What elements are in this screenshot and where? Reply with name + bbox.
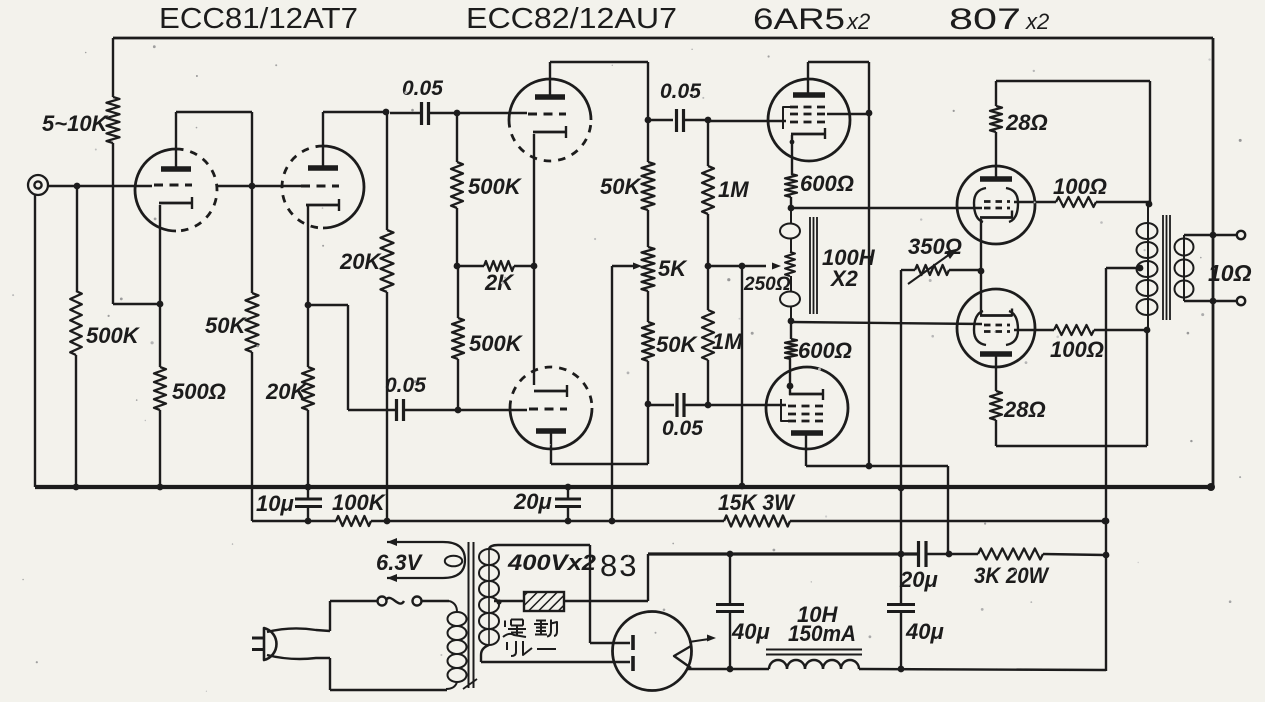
wire B+ riser — [1105, 268, 1107, 671]
node V2b grid — [455, 407, 462, 414]
wire 350ohm to ground — [900, 270, 902, 488]
tube V2b ECC82 triode inverted — [510, 408, 592, 449]
wire V6 screen — [1014, 329, 1054, 331]
svg-text:0.05: 0.05 — [402, 77, 443, 100]
wire V1a plate jog — [175, 112, 177, 169]
svg-text:500K: 500K — [86, 323, 141, 348]
capacitor 20u decoupling — [567, 487, 569, 498]
svg-text:0.05: 0.05 — [385, 374, 426, 397]
terminal output top — [1237, 231, 1245, 239]
node B+ line right — [1102, 518, 1109, 525]
wire to 807 upper grid — [791, 207, 982, 209]
svg-text:400Vx2: 400Vx2 — [507, 550, 597, 575]
resistor 500K grid leak — [76, 186, 78, 291]
tube V5 807 upper — [957, 166, 1035, 244]
svg-text:X2: X2 — [829, 266, 859, 291]
wire upper 6AR5 grid — [708, 120, 786, 122]
svg-text:100K: 100K — [332, 490, 387, 515]
node driver lower — [788, 318, 795, 325]
wire plate bus down — [868, 113, 870, 466]
AC plug — [252, 637, 264, 640]
fuse — [330, 600, 377, 602]
svg-text:40μ: 40μ — [905, 619, 944, 644]
wire 5K wiper — [612, 265, 633, 267]
wire jack shield to ground — [34, 195, 36, 487]
wire center to ground — [741, 266, 743, 486]
tube V6 807 lower inverted — [957, 289, 1035, 367]
node 1M center — [705, 263, 712, 270]
svg-text:x2: x2 — [1025, 9, 1049, 34]
potentiometer 5K — [642, 247, 655, 291]
wire right rail — [1212, 38, 1215, 487]
resistor 500ohm cathode — [154, 367, 166, 410]
svg-text:500Ω: 500Ω — [172, 379, 226, 404]
wire plug box — [329, 601, 331, 631]
wire V1a cathode — [159, 205, 161, 304]
wire V3 screen tie — [827, 113, 869, 115]
svg-text:28Ω: 28Ω — [1003, 397, 1046, 422]
node driver upper — [788, 205, 795, 212]
label relay kanji — [503, 620, 526, 638]
wire input grid line — [48, 185, 152, 187]
input jack J1 — [28, 175, 48, 195]
capacitor 0.05 coupling 2 — [395, 399, 398, 421]
wire V1b cathode — [307, 206, 309, 305]
svg-text:6.3V: 6.3V — [376, 550, 424, 575]
node V1b plate — [383, 109, 390, 116]
svg-text:0.05: 0.05 — [660, 80, 701, 103]
wire B+ raw — [688, 668, 730, 670]
node primary bottom — [1144, 327, 1151, 334]
svg-text:ECC82/12AU7: ECC82/12AU7 — [466, 3, 677, 35]
svg-text:5~10K: 5~10K — [42, 111, 110, 136]
resistor 100K — [336, 516, 371, 526]
resistor 500K V2b grid leak — [457, 266, 459, 318]
wire 6AR5 supply drop — [947, 466, 949, 554]
divider 50K lower — [647, 291, 649, 322]
wire V2b cathode — [533, 266, 535, 385]
capacitor 20u series — [917, 541, 920, 567]
wire V2b grid line — [404, 409, 527, 411]
wire V6 plate to 28ohm — [995, 354, 997, 391]
node V1a plate to V1b grid — [249, 183, 256, 190]
resistor 50K — [251, 186, 253, 293]
svg-text:100Ω: 100Ω — [1050, 337, 1104, 362]
resistor 28ohm lower — [990, 391, 1002, 420]
resistor 2K — [457, 265, 484, 267]
resistor 28ohm upper — [990, 106, 1002, 132]
node V3 plate-screen — [866, 110, 873, 117]
wire HV bottom lead — [481, 645, 489, 662]
node upper 1M grid — [705, 117, 712, 124]
resistor 20K cathode — [307, 305, 309, 367]
resistor 350ohm bias — [901, 269, 915, 271]
resistor 20K plate load — [386, 112, 388, 230]
transformer core — [1162, 215, 1164, 320]
node cathode bias — [978, 268, 985, 275]
svg-text:40μ: 40μ — [731, 619, 770, 644]
svg-text:20μ: 20μ — [899, 567, 938, 592]
node 6AR5 supply — [946, 551, 953, 558]
svg-text:50K: 50K — [656, 332, 698, 357]
svg-text:150mA: 150mA — [788, 621, 856, 646]
wire B+ raw to riser — [859, 669, 1106, 670]
resistor 600ohm lower — [785, 339, 797, 359]
wire V2a cathode chain — [533, 134, 535, 266]
svg-text:3K 20W: 3K 20W — [974, 563, 1050, 588]
wire grid line between triodes — [217, 185, 303, 187]
node ground right corner — [1207, 483, 1215, 491]
wire PSU ground bus — [648, 552, 917, 555]
wire B+ distribution line — [252, 520, 336, 522]
tube V1b ECC81 triode — [323, 146, 364, 228]
interstage choke winding 100H — [790, 208, 792, 224]
output transformer secondary — [1183, 235, 1185, 301]
resistor 100ohm upper screen — [1056, 197, 1096, 207]
wire bottom box — [996, 445, 1147, 447]
svg-text:50K: 50K — [205, 313, 247, 338]
node lower 1M grid — [705, 402, 712, 409]
wire secondary top — [1184, 234, 1237, 236]
resistor 5~10K feedback — [112, 38, 114, 97]
svg-text:1M: 1M — [718, 177, 749, 202]
node 2K junction right — [531, 263, 538, 270]
wire to V2a grid — [457, 112, 527, 114]
resistor 3K 20W — [978, 549, 1043, 560]
svg-text:6AR5: 6AR5 — [753, 3, 845, 36]
svg-text:20μ: 20μ — [513, 489, 552, 514]
wire center tap line — [708, 265, 766, 267]
resistor 600ohm upper — [785, 174, 797, 197]
svg-text:0.05: 0.05 — [662, 417, 703, 440]
node plate bus join — [866, 463, 873, 470]
node primary top — [1146, 201, 1153, 208]
capacitor 0.05 coupling 4 — [648, 404, 674, 406]
svg-text:500K: 500K — [468, 174, 523, 199]
relay delay — [494, 600, 524, 602]
resistor 100ohm lower screen — [1054, 325, 1094, 335]
choke core — [809, 217, 811, 314]
wire V3 cathode — [791, 135, 793, 174]
svg-text:20K: 20K — [265, 379, 308, 404]
node V2a plate — [645, 117, 652, 124]
svg-text:15K 3W: 15K 3W — [718, 490, 796, 515]
choke 10H 150mA — [769, 660, 787, 669]
svg-text:600Ω: 600Ω — [800, 171, 854, 196]
wire to 807 lower grid — [791, 322, 982, 324]
node cathode junction — [157, 301, 164, 308]
wire V1b plate jog — [322, 112, 324, 168]
capacitor 0.05 coupling 1 — [390, 112, 420, 114]
wire cathode tap to coupling cap — [308, 304, 348, 306]
resistor 1M upper — [707, 120, 709, 166]
wire HV top lead — [489, 545, 590, 549]
node lower divider — [645, 401, 652, 408]
wire rectifier plate lower — [631, 656, 635, 671]
tube V4 6AR5 lower inverted — [766, 367, 848, 449]
wire top box — [996, 80, 1150, 82]
svg-text:28Ω: 28Ω — [1005, 110, 1048, 135]
wire 5-10K to cathode junction — [113, 303, 160, 305]
svg-text:x2: x2 — [846, 9, 870, 34]
node V1b cathode junction — [305, 302, 312, 309]
node 2K junction left — [454, 263, 461, 270]
tube V3 6AR5 upper — [768, 79, 850, 161]
svg-text:10μ: 10μ — [256, 491, 294, 516]
svg-text:100Ω: 100Ω — [1053, 174, 1107, 199]
wire V2a plate jog — [549, 62, 551, 97]
capacitor 10u — [307, 487, 309, 498]
wire V3 plate jog — [807, 62, 809, 95]
resistor 15K 3W — [724, 516, 790, 527]
svg-text:ECC81/12AT7: ECC81/12AT7 — [159, 3, 358, 35]
svg-text:2K: 2K — [484, 270, 515, 295]
tube V2a ECC82 triode — [509, 79, 591, 120]
svg-text:5K: 5K — [658, 256, 688, 281]
svg-text:20K: 20K — [339, 249, 382, 274]
node V2a grid — [454, 110, 461, 117]
resistor 500K V2a grid leak — [456, 113, 458, 162]
wire V4 cathode — [789, 359, 791, 395]
wire lower 6AR5 grid — [708, 404, 786, 406]
svg-text:10Ω: 10Ω — [1208, 260, 1252, 286]
divider 50K upper — [647, 120, 649, 162]
rectifier output arrow — [689, 639, 709, 642]
rectifier filament — [674, 646, 691, 668]
HV winding 400Vx2 — [479, 549, 499, 565]
wire V5 screen — [1014, 201, 1056, 203]
power transformer core — [468, 542, 470, 688]
primary center tap — [1137, 265, 1144, 272]
svg-text:83: 83 — [600, 548, 638, 583]
wire secondary bottom — [1184, 300, 1237, 302]
wire V2b plate jog — [550, 431, 552, 464]
svg-text:500K: 500K — [469, 331, 524, 356]
output transformer primary — [1147, 204, 1149, 330]
wire rectifier plate upper — [590, 642, 630, 644]
wire V5 cathode — [980, 219, 982, 315]
tube V7 83 rectifier — [613, 612, 692, 691]
capacitor 40u first — [727, 551, 734, 558]
wire V5 plate to 28ohm — [995, 132, 997, 179]
svg-text:350Ω: 350Ω — [908, 234, 962, 259]
capacitor 0.05 coupling 3 — [648, 119, 673, 121]
wire V4 plate — [805, 433, 807, 466]
resistor 1M lower — [707, 266, 709, 310]
node input junction — [74, 183, 81, 190]
mains primary winding — [448, 612, 467, 626]
tube V1a ECC81 triode — [135, 149, 176, 231]
capacitor 40u second — [898, 551, 905, 558]
node center ground branch — [739, 263, 746, 270]
svg-text:250Ω: 250Ω — [743, 274, 791, 295]
wire primary bottom — [446, 682, 457, 689]
wire top feedback rail — [113, 37, 1213, 40]
svg-text:807: 807 — [949, 3, 1021, 36]
heater winding 6.3V — [387, 542, 465, 578]
svg-text:1M: 1M — [712, 329, 743, 354]
wire ground bus — [35, 485, 1211, 489]
svg-text:600Ω: 600Ω — [798, 338, 852, 363]
terminal output bottom — [1237, 297, 1245, 305]
svg-text:50K: 50K — [600, 174, 642, 199]
